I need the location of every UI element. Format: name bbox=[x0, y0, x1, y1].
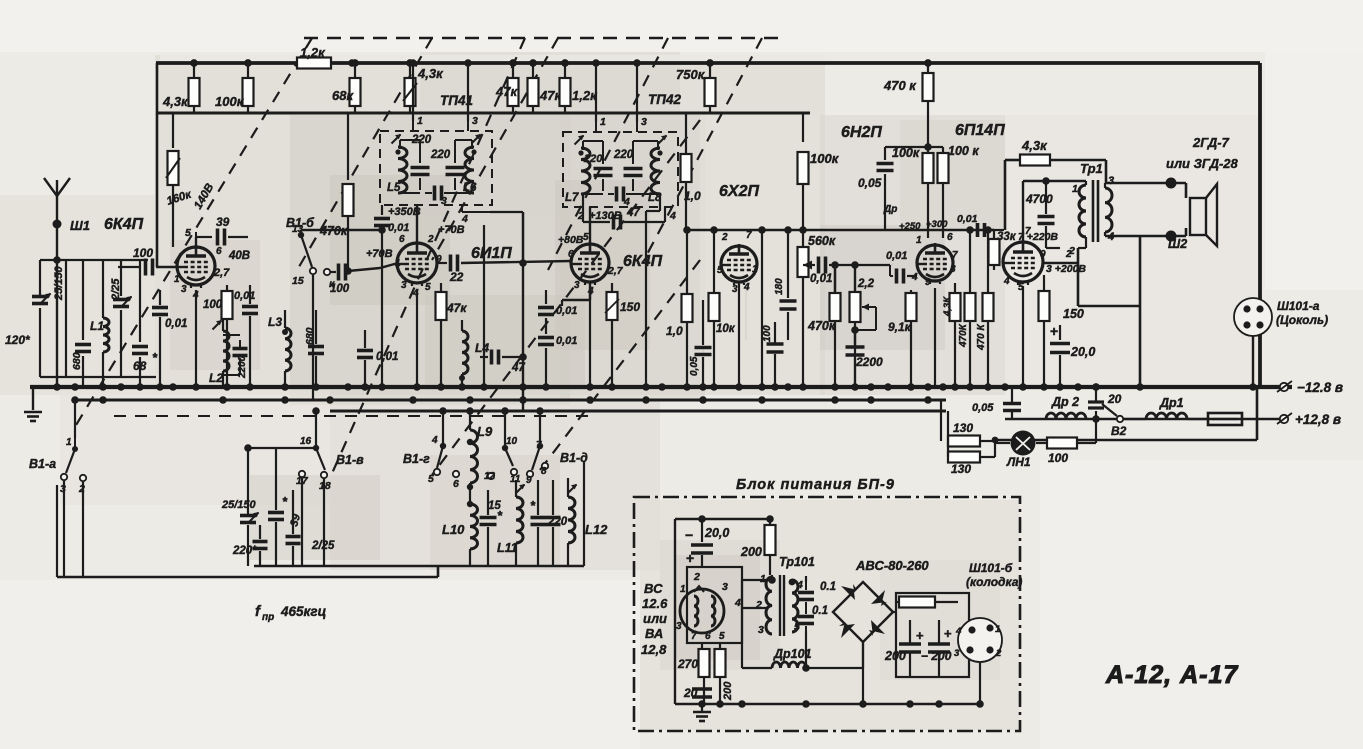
svg-text:−12.8 в: −12.8 в bbox=[1297, 380, 1343, 395]
svg-text:4: 4 bbox=[743, 282, 750, 293]
svg-text:L2: L2 bbox=[209, 371, 223, 385]
svg-text:220: 220 bbox=[430, 149, 451, 161]
svg-text:220*: 220* bbox=[232, 545, 257, 557]
resistor 1,2k horizontal bbox=[280, 62, 298, 64]
svg-text:9: 9 bbox=[925, 277, 931, 288]
svg-text:Тр1: Тр1 bbox=[1080, 161, 1103, 176]
capacitor 2200 bbox=[854, 330, 856, 345]
svg-text:0.1: 0.1 bbox=[820, 581, 836, 593]
svg-text:3: 3 bbox=[181, 284, 187, 295]
svg-text:9: 9 bbox=[526, 475, 532, 486]
svg-text:L10: L10 bbox=[442, 522, 465, 537]
svg-text:22: 22 bbox=[449, 270, 464, 284]
svg-text:1: 1 bbox=[174, 274, 180, 285]
bus junction dots bbox=[53, 383, 61, 391]
svg-text:L4: L4 bbox=[475, 341, 489, 355]
svg-text:20,0: 20,0 bbox=[704, 526, 729, 540]
top rail junction dots bbox=[190, 59, 198, 67]
wire left frame edge bbox=[156, 63, 159, 267]
ground (PS) bbox=[693, 711, 711, 714]
svg-text:L7: L7 bbox=[565, 192, 579, 204]
resistor 1,0 (det) bbox=[686, 230, 688, 294]
wire 130 bracket bbox=[947, 441, 949, 457]
svg-text:L1: L1 bbox=[90, 319, 104, 333]
svg-text:2,7: 2,7 bbox=[607, 265, 624, 277]
wire PS top link bbox=[675, 518, 770, 520]
svg-text:100: 100 bbox=[203, 299, 223, 311]
connector Sh101-a bbox=[1234, 298, 1272, 336]
svg-text:100к: 100к bbox=[810, 151, 840, 166]
svg-text:11: 11 bbox=[510, 474, 521, 485]
wire AF line to pot bbox=[834, 265, 836, 293]
svg-text:2ГД-7: 2ГД-7 bbox=[1192, 135, 1230, 150]
resistor 100k (6N2P b) bbox=[942, 147, 944, 152]
potentiometer wiper bbox=[862, 306, 876, 308]
svg-text:100: 100 bbox=[1048, 451, 1068, 465]
lamp LN1 bbox=[1011, 431, 1036, 456]
tube V6 6P14P bbox=[1003, 242, 1043, 282]
choke Dr101 bbox=[772, 662, 806, 668]
svg-text:2: 2 bbox=[995, 648, 1002, 659]
svg-text:2: 2 bbox=[693, 571, 700, 583]
svg-text:1: 1 bbox=[995, 624, 1000, 635]
svg-text:200: 200 bbox=[722, 681, 734, 701]
capacitor 15 (band) bbox=[480, 516, 497, 520]
svg-text:7: 7 bbox=[952, 250, 958, 261]
capacitor 47 (TP42) bbox=[582, 194, 584, 222]
svg-text:0,01: 0,01 bbox=[388, 222, 409, 234]
wire V2 anode bbox=[416, 205, 418, 243]
terminal +12.8V bbox=[1280, 415, 1288, 423]
coil L3 bbox=[285, 328, 291, 371]
antenna W1 bbox=[56, 196, 58, 224]
wire B1-a to bus bbox=[74, 400, 76, 438]
svg-text:0,01: 0,01 bbox=[556, 335, 577, 347]
svg-text:12: 12 bbox=[484, 471, 496, 482]
svg-text:4,3к: 4,3к bbox=[162, 94, 189, 109]
wire Sh101-a stub bbox=[1252, 336, 1254, 387]
svg-text:3: 3 bbox=[441, 195, 447, 207]
wire TP41 top links bbox=[399, 140, 401, 149]
svg-text:20,0: 20,0 bbox=[1070, 345, 1095, 359]
svg-text:20: 20 bbox=[683, 686, 698, 700]
resistor 200 (PS top) bbox=[769, 519, 771, 524]
svg-text:5: 5 bbox=[185, 227, 191, 239]
svg-text:6П14П: 6П14П bbox=[955, 122, 1005, 139]
svg-text:3: 3 bbox=[401, 280, 407, 291]
capacitor 220 (TP42 second) bbox=[632, 153, 634, 164]
wire input section bottom bbox=[40, 376, 156, 378]
resistor 160k bbox=[172, 113, 174, 148]
svg-text:6Н2П: 6Н2П bbox=[841, 124, 882, 141]
svg-text:150: 150 bbox=[620, 300, 640, 314]
svg-text:100к: 100к bbox=[215, 94, 245, 109]
transformer Tr101 primary bbox=[766, 577, 772, 634]
switch V2 (power) bbox=[1117, 416, 1123, 422]
wire screen supply rail bbox=[157, 112, 810, 115]
capacitor 0,05 (6N2P) bbox=[884, 147, 886, 160]
svg-text:680: 680 bbox=[71, 352, 83, 370]
vibrator internals bbox=[694, 596, 698, 626]
svg-text:47к: 47к bbox=[446, 301, 467, 315]
wire Tr1 anode link bbox=[1042, 262, 1078, 265]
svg-text:100: 100 bbox=[330, 283, 350, 295]
resistor 100 (V1 cathode) bbox=[226, 285, 228, 292]
resistor 470k a (V5) bbox=[969, 230, 971, 293]
svg-text:пр: пр bbox=[262, 612, 274, 623]
svg-text:39: 39 bbox=[216, 215, 230, 229]
svg-text:6К4П: 6К4П bbox=[104, 216, 144, 233]
svg-text:12,8: 12,8 bbox=[641, 642, 667, 657]
svg-text:0,01: 0,01 bbox=[810, 273, 832, 285]
pin 3 TP42 bbox=[636, 122, 638, 132]
transformer Tr1 secondary bbox=[1105, 188, 1112, 232]
svg-text:40В: 40В bbox=[228, 250, 250, 262]
svg-text:3: 3 bbox=[954, 648, 960, 659]
capacitor 39 (V1 anode) bbox=[196, 236, 212, 238]
wire lamp leads bbox=[995, 442, 1010, 444]
switch B1-b arm bbox=[301, 235, 312, 267]
capacitor 0,01 (V1 cathode) bbox=[249, 285, 251, 304]
svg-text:6К4П: 6К4П bbox=[623, 253, 663, 270]
svg-text:33к: 33к bbox=[997, 231, 1017, 243]
svg-text:470 К: 470 К bbox=[976, 324, 987, 351]
svg-text:ТП42: ТП42 bbox=[648, 92, 681, 107]
svg-text:− 200: − 200 bbox=[921, 649, 952, 663]
svg-text:4700: 4700 bbox=[1025, 192, 1053, 206]
svg-text:5: 5 bbox=[583, 232, 589, 243]
tube V3 6K4P(2) bbox=[571, 244, 609, 282]
svg-text:8: 8 bbox=[541, 466, 547, 477]
output filter box bbox=[896, 593, 969, 677]
resistor 470k (AGC) bbox=[347, 113, 349, 180]
svg-text:20: 20 bbox=[1107, 392, 1122, 406]
resistor 150 (V6 cath) bbox=[1043, 275, 1045, 292]
svg-text:Тр101: Тр101 bbox=[779, 555, 815, 569]
bridge diodes bbox=[841, 584, 857, 600]
resistor 10k (det) bbox=[713, 230, 715, 293]
capacitor 22 coupling bbox=[437, 262, 447, 264]
svg-text:или ЗГД-28: или ЗГД-28 bbox=[1166, 156, 1239, 171]
capacitor 4 (TP42 coupling) bbox=[608, 193, 614, 195]
wire band bottom rail bbox=[254, 565, 584, 567]
capacitor 680 (osc) bbox=[315, 310, 317, 344]
svg-text:3 +200В: 3 +200В bbox=[1046, 263, 1086, 275]
wire B1-v link bbox=[248, 447, 316, 449]
svg-text:1: 1 bbox=[395, 258, 401, 269]
capacitor 100 coupling bbox=[118, 266, 140, 268]
pin 1 TP41 bbox=[412, 121, 414, 131]
svg-text:Ш1: Ш1 bbox=[70, 218, 90, 233]
svg-text:680: 680 bbox=[304, 327, 316, 345]
wire V3 anode bbox=[589, 207, 591, 244]
resistor 100k (6N2P a) bbox=[927, 147, 929, 152]
coil L9 bbox=[470, 430, 478, 483]
wire V4 to bus bbox=[738, 282, 740, 387]
wire V6 heater drop bbox=[1022, 286, 1024, 387]
wire V1 heater drop bbox=[195, 290, 197, 387]
resistor 130 a bbox=[948, 436, 980, 447]
svg-text:4,3К: 4,3К bbox=[942, 296, 953, 317]
pin 4 TP42 wire bbox=[664, 207, 666, 214]
tube V5 6N2P bbox=[917, 245, 953, 281]
wire input col bbox=[65, 260, 67, 377]
svg-text:3: 3 bbox=[758, 624, 764, 636]
svg-text:Ш101-а: Ш101-а bbox=[1277, 299, 1320, 313]
coil L11 bbox=[516, 497, 523, 543]
svg-text:6: 6 bbox=[216, 246, 222, 257]
dashed tuning-gang top line bbox=[304, 37, 782, 40]
svg-text:А-12, А-17: А-12, А-17 bbox=[1105, 661, 1238, 689]
svg-text:4: 4 bbox=[431, 435, 438, 446]
wire 17 down bbox=[323, 479, 325, 566]
capacitor 0,01 (b) bbox=[545, 330, 547, 334]
pin 1 TP42 bbox=[595, 122, 597, 132]
trimmer capacitor 2/25 bbox=[120, 260, 122, 296]
resistor 4,3k rot (V5) bbox=[950, 293, 961, 321]
capacitor 4700 bbox=[1045, 181, 1047, 214]
svg-text:L3: L3 bbox=[268, 315, 282, 329]
choke Dr1 bbox=[1146, 413, 1187, 419]
capacitor 0,01 to volume bbox=[803, 264, 815, 266]
svg-text:0,01: 0,01 bbox=[886, 250, 907, 262]
svg-text:9: 9 bbox=[1040, 249, 1046, 260]
svg-text:L12: L12 bbox=[585, 522, 608, 537]
svg-text:В2: В2 bbox=[1111, 424, 1127, 438]
wire speaker top bbox=[1104, 183, 1106, 188]
svg-text:2: 2 bbox=[755, 599, 762, 611]
svg-text:В1-б: В1-б bbox=[286, 216, 315, 230]
svg-text:−: − bbox=[685, 527, 693, 543]
svg-text:Др: Др bbox=[883, 204, 897, 215]
capacitor 39 (band) bbox=[286, 535, 301, 539]
vibrator box bbox=[687, 567, 742, 643]
resistor 68k bbox=[354, 63, 356, 78]
tube V1 6K4P bbox=[177, 247, 215, 285]
svg-text:100к: 100к bbox=[892, 146, 920, 160]
capacitor 220 (TP41 second) bbox=[454, 152, 456, 163]
svg-text:(Цоколь): (Цоколь) bbox=[1276, 313, 1328, 327]
ground (left) bbox=[32, 387, 34, 410]
svg-text:Др 2: Др 2 bbox=[1051, 395, 1079, 409]
resistor 150 (V3) bbox=[611, 283, 613, 292]
svg-text:0.1: 0.1 bbox=[812, 605, 828, 617]
svg-text:3: 3 bbox=[676, 621, 682, 632]
svg-text:7: 7 bbox=[746, 230, 752, 241]
svg-text:120*: 120* bbox=[5, 333, 31, 347]
capacitor 100 (det2) bbox=[767, 342, 784, 346]
resistor 470k (output) bbox=[927, 63, 929, 73]
svg-text:100 к: 100 к bbox=[948, 144, 979, 158]
svg-text:8: 8 bbox=[950, 264, 956, 275]
wire third bus bbox=[330, 410, 946, 413]
trimmer capacitor 120* bbox=[39, 308, 41, 377]
svg-text:0,01: 0,01 bbox=[376, 351, 398, 363]
IF transformer TP42 dashed box bbox=[563, 132, 678, 207]
dashed gang diagonal 4 bbox=[432, 38, 558, 260]
svg-text:150: 150 bbox=[1063, 307, 1084, 321]
svg-text:5: 5 bbox=[719, 631, 725, 642]
capacitor 100 (AGC) bbox=[331, 271, 336, 273]
tube V1 pin5 wire bbox=[195, 232, 197, 247]
coil L4 bbox=[462, 331, 468, 374]
svg-text:3: 3 bbox=[1108, 175, 1114, 187]
svg-text:130: 130 bbox=[953, 421, 973, 435]
svg-text:2: 2 bbox=[1068, 245, 1075, 257]
svg-text:+250: +250 bbox=[899, 221, 921, 232]
svg-text:3: 3 bbox=[722, 581, 728, 593]
svg-text:1: 1 bbox=[417, 115, 423, 127]
svg-text:L9: L9 bbox=[477, 424, 493, 439]
wire TP42 secondary return bbox=[659, 194, 661, 211]
svg-text:ВА: ВА bbox=[645, 626, 663, 641]
resistor 100k (det load) bbox=[802, 113, 804, 142]
wire V2 heater drop bbox=[416, 289, 418, 387]
svg-text:4: 4 bbox=[955, 626, 962, 637]
wire PS links bbox=[805, 631, 807, 668]
resistor 560k bbox=[802, 232, 804, 247]
capacitor 180 (det) bbox=[787, 232, 789, 298]
svg-text:200: 200 bbox=[740, 545, 762, 559]
dashed gang diagonal 2 bbox=[296, 38, 432, 272]
vibrator tube bbox=[680, 589, 724, 633]
capacitor 0,01 (TP41 left) bbox=[381, 205, 383, 215]
svg-text:Блок питания БП-9: Блок питания БП-9 bbox=[736, 477, 895, 493]
svg-text:0,01: 0,01 bbox=[957, 213, 978, 225]
svg-text:2200: 2200 bbox=[237, 355, 248, 379]
coil L1 bbox=[102, 260, 104, 318]
pin 3 TP41 bbox=[467, 121, 469, 131]
svg-text:3: 3 bbox=[472, 115, 478, 127]
svg-text:1: 1 bbox=[1072, 183, 1078, 195]
resistor 4,3k (2nd) bbox=[409, 63, 411, 78]
svg-text:560к: 560к bbox=[808, 234, 836, 248]
svg-text:0,05: 0,05 bbox=[858, 176, 882, 190]
tube V4 6X2P bbox=[721, 246, 757, 282]
resistor 200 rot (PS) bbox=[719, 643, 721, 649]
wire V2 mixer col bbox=[483, 225, 485, 387]
coil L7 bbox=[581, 148, 590, 194]
wire second bus bbox=[75, 399, 946, 402]
coil L12 bbox=[568, 497, 575, 543]
bridge rectifier AVS-80-260 bbox=[833, 582, 893, 642]
wire 6N2P anode rail bbox=[885, 146, 928, 148]
svg-text:+70В: +70В bbox=[366, 248, 393, 260]
power supply box BP-9 bbox=[634, 497, 1020, 731]
svg-text:0,05: 0,05 bbox=[972, 402, 994, 414]
coil L5 bbox=[398, 147, 407, 193]
svg-text:1: 1 bbox=[916, 235, 922, 246]
terminal -12.8V bbox=[1280, 383, 1288, 391]
svg-text:L5: L5 bbox=[387, 182, 401, 194]
resistor filter (PS) bbox=[899, 597, 935, 608]
capacitor 0,01 cathode bbox=[159, 290, 161, 305]
svg-text:+12,8 в: +12,8 в bbox=[1295, 412, 1341, 427]
svg-text:270: 270 bbox=[677, 657, 698, 671]
choke Dr2 bbox=[1046, 413, 1086, 419]
resistor 100 (lamp) bbox=[1047, 438, 1077, 449]
svg-text:1,2к: 1,2к bbox=[572, 88, 598, 103]
resistor 33k bbox=[993, 230, 995, 240]
svg-text:470к: 470к bbox=[807, 319, 836, 333]
svg-text:9,1к: 9,1к bbox=[888, 320, 912, 334]
potentiometer 2,2 bbox=[854, 265, 856, 292]
svg-text:6И1П: 6И1П bbox=[471, 245, 512, 262]
svg-text:1: 1 bbox=[600, 116, 606, 128]
coil L10 bbox=[470, 504, 478, 549]
wire Dr101 path bbox=[741, 628, 743, 668]
resistor 470k b (V5) bbox=[987, 230, 989, 293]
wire V1 anode to TP41 bbox=[195, 237, 197, 247]
wire AGC to V2 grid bbox=[345, 270, 348, 272]
svg-text:7: 7 bbox=[691, 631, 697, 642]
resistor 470k (AF) bbox=[830, 293, 841, 321]
capacitor 220* (band) bbox=[253, 540, 268, 544]
wire dashed chassis line bbox=[114, 415, 592, 417]
svg-text:Ш101-б: Ш101-б bbox=[969, 561, 1013, 575]
svg-text:1,0: 1,0 bbox=[666, 324, 683, 338]
svg-text:25/150: 25/150 bbox=[53, 265, 65, 301]
resistor 47k (V2) bbox=[440, 283, 442, 292]
electrolytic 20,0 (PS) bbox=[701, 519, 703, 542]
svg-text:+80В: +80В bbox=[558, 234, 584, 246]
svg-text:47: 47 bbox=[626, 207, 640, 219]
transformer Tr1 primary bbox=[1079, 185, 1086, 237]
svg-text:В1-в: В1-в bbox=[336, 453, 364, 467]
coil L2 with slug bbox=[223, 331, 229, 371]
capacitor 3 (TP41 coupling) bbox=[425, 192, 432, 194]
svg-text:+300: +300 bbox=[926, 219, 948, 230]
dashed gang diagonal 8 bbox=[540, 260, 700, 470]
speaker Sh2 bbox=[1190, 198, 1206, 235]
svg-text:3: 3 bbox=[641, 116, 647, 128]
electrolytic 200 b (PS) bbox=[928, 642, 950, 646]
coil L8 bbox=[651, 148, 660, 194]
capacitor 220 (TP41 first) bbox=[419, 152, 421, 163]
wire chassis bus (-12.8V) bbox=[30, 385, 1292, 389]
capacitor 0,01 (a) bbox=[545, 290, 547, 304]
svg-text:ЛН1: ЛН1 bbox=[1006, 455, 1031, 469]
wire V5 heater drop bbox=[934, 288, 936, 387]
scan background shading bbox=[155, 55, 825, 395]
svg-text:7: 7 bbox=[536, 440, 542, 451]
svg-text:2: 2 bbox=[721, 232, 728, 243]
capacitor 0,01 (osc out) bbox=[364, 330, 366, 348]
svg-text:4: 4 bbox=[911, 272, 918, 283]
svg-text:6Х2П: 6Х2П bbox=[719, 183, 759, 200]
svg-text:6: 6 bbox=[453, 478, 459, 490]
capacitor 0,01 (to 6N2P grid) bbox=[890, 264, 893, 266]
wire antenna downlead bbox=[56, 224, 58, 387]
svg-text:L11: L11 bbox=[497, 541, 518, 555]
svg-text:180: 180 bbox=[774, 278, 785, 295]
wire PS bottom bus bbox=[675, 703, 980, 706]
wire TP42 bottom links bbox=[583, 193, 603, 195]
svg-text:0,05: 0,05 bbox=[689, 356, 700, 376]
connector Sh101-b bbox=[958, 618, 1002, 662]
wire vibrator to Tr101 bbox=[741, 580, 743, 628]
resistor 4,3k NFB bbox=[1020, 155, 1050, 166]
coil L6 bbox=[465, 147, 474, 193]
wire B1-a contacts down bbox=[63, 481, 65, 577]
svg-text:750к: 750к bbox=[676, 67, 706, 82]
svg-text:47к: 47к bbox=[495, 84, 518, 99]
svg-text:5: 5 bbox=[717, 265, 723, 276]
svg-text:1: 1 bbox=[66, 437, 72, 448]
svg-text:100: 100 bbox=[762, 325, 773, 342]
svg-text:5: 5 bbox=[425, 282, 431, 293]
resistor 750k bbox=[709, 63, 711, 78]
